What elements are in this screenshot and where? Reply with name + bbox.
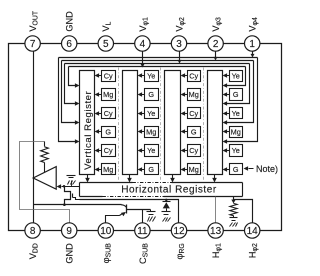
pin 11 circle (135, 223, 150, 238)
svg-text:Cy: Cy (189, 109, 198, 118)
wire ground net to pin 9 (thin) (20, 142, 70, 223)
photocell Cy col1 row5 with readout arrow (102, 145, 116, 157)
svg-text:Cy: Cy (104, 146, 113, 155)
wire phiRG pin 12 to reset gate (80, 200, 179, 223)
svg-text:G: G (105, 128, 111, 137)
arrow into resistor R2 (231, 200, 235, 204)
svg-text:Ye: Ye (232, 146, 240, 155)
op-amp U1 (output amplifier) (33, 167, 56, 190)
pin 8 circle (25, 223, 40, 238)
photocell Mg col1 row6 with readout arrow (102, 164, 116, 175)
wire stub Vφ2 pin 3 to bus (179, 52, 181, 63)
ground CSUB node (150, 210, 152, 212)
photocell Mg col3 row6 with readout arrow (188, 164, 201, 175)
svg-text:Ye: Ye (147, 71, 155, 80)
horizontal register box (79, 183, 243, 197)
wire Vφ4 bus line (pin 1) (59, 57, 258, 59)
svg-text:Cy: Cy (189, 71, 198, 80)
photocell Mg col3 row2 with readout arrow (188, 89, 201, 101)
svg-text:5: 5 (103, 39, 109, 50)
wire stub Vφ3 pin 2 to bus (215, 52, 217, 60)
wire VOUT pin 7 to amplifier output / VDD riser to pin 8 (33, 52, 35, 223)
pin 7 circle (25, 36, 40, 51)
svg-text:G: G (148, 165, 154, 174)
svg-text:3: 3 (176, 39, 182, 50)
vertical register column 4 (208, 71, 223, 175)
wire Hphi2 pin 14 to horizontal register (233, 197, 235, 200)
wire substrate node to CSUB (127, 209, 151, 211)
photocell Mg col1 row2 with readout arrow (102, 89, 116, 101)
photocell Cy col1 row3 with readout arrow (102, 108, 116, 119)
wire stub Vφ1 pin 4 to bus (142, 52, 144, 66)
wire horizontal register output to amplifier (62, 186, 80, 188)
svg-text:Cy: Cy (189, 146, 198, 155)
diode D1 (phiRG protection) (166, 200, 168, 202)
svg-text:Mg: Mg (189, 90, 199, 99)
photocell Ye col4 row5 with readout arrow (230, 145, 243, 157)
svg-text:Ye: Ye (147, 109, 155, 118)
node VDD junction (63, 203, 66, 206)
dash-dot continuation line 1 (118, 68, 120, 182)
photocell Ye col4 row1 with readout arrow (230, 71, 243, 82)
substrate contact bar (126, 205, 128, 214)
node amplifier input junction (63, 185, 66, 188)
svg-text:GND: GND (65, 243, 75, 264)
svg-text:Mg: Mg (103, 90, 113, 99)
photocell Cy col3 row5 with readout arrow (188, 145, 201, 157)
photocell Ye col2 row5 with readout arrow (145, 145, 159, 157)
photocell Cy col3 row1 with readout arrow (188, 71, 201, 82)
arrow vertical register 1 to horizontal register (87, 175, 89, 179)
node phiRG diode junction (165, 199, 168, 202)
pin 6 circle (61, 36, 76, 51)
photocell Ye col4 row3 with readout arrow (230, 108, 243, 119)
svg-text:12: 12 (173, 226, 185, 237)
vertical register column 2 (123, 71, 138, 175)
svg-text:Ye: Ye (147, 146, 155, 155)
dash-dot continuation line 2 (160, 68, 162, 182)
arrow vertical register 2 to horizontal register (129, 175, 131, 179)
photocell G col2 row6 with readout arrow (145, 164, 159, 175)
ground diode D1 (162, 211, 171, 213)
svg-text:G: G (148, 90, 154, 99)
dash-dot continuation line 3 (203, 68, 205, 182)
wire phiSUB pin 10 to substrate (arrow) (106, 216, 120, 223)
svg-text:9: 9 (66, 226, 72, 237)
wire Vφ1 bus line (pin 4) (69, 66, 246, 68)
svg-text:1: 1 (249, 39, 255, 50)
pin 2 circle (208, 36, 223, 51)
svg-text:G: G (233, 165, 239, 174)
svg-text:Mg: Mg (146, 128, 156, 137)
svg-text:13: 13 (210, 226, 222, 237)
photocell G col3 row4 with readout arrow (188, 127, 201, 138)
wire CSUB pin 11 riser (142, 210, 144, 223)
svg-text:7: 7 (30, 39, 36, 50)
photocell Ye col2 row3 with readout arrow (145, 108, 159, 119)
vertical register column 3 (165, 71, 181, 175)
photocell G col4 row2 with readout arrow (230, 89, 243, 101)
arrow vertical register 4 to horizontal register (214, 175, 216, 179)
svg-text:G: G (191, 128, 197, 137)
photocell Cy col1 row1 with readout arrow (102, 71, 116, 82)
wire Hphi1 pin 13 to horizontal register (thin) (215, 197, 217, 223)
svg-text:Cy: Cy (104, 71, 113, 80)
resistor R2 (Hphi2 termination) (230, 203, 237, 215)
svg-text:4: 4 (140, 39, 146, 50)
svg-text:8: 8 (30, 226, 36, 237)
note arrow and label (249, 168, 254, 170)
pin 13 circle (208, 223, 223, 238)
svg-text:11: 11 (137, 226, 148, 237)
svg-text:6: 6 (66, 39, 72, 50)
wire Vφ3 bus line (pin 2) (62, 60, 254, 62)
photocell G col2 row2 with readout arrow (145, 89, 159, 101)
pin 10 circle (98, 223, 113, 238)
pin 14 circle (245, 223, 260, 238)
svg-text:Note): Note) (256, 164, 278, 174)
chip package outline (9, 44, 282, 231)
arrow vertical register 3 to horizontal register (172, 175, 174, 179)
svg-text:10: 10 (100, 226, 112, 237)
pin 3 circle (171, 36, 186, 51)
svg-text:Mg: Mg (189, 165, 199, 174)
svg-text:Vertical Register: Vertical Register (83, 90, 94, 169)
pin 9 circle (61, 223, 76, 238)
svg-text:Cy: Cy (104, 109, 113, 118)
photocell Mg col4 row4 with readout arrow (230, 127, 243, 138)
svg-text:Mg: Mg (231, 128, 241, 137)
photocell Mg col2 row4 with readout arrow (145, 127, 159, 138)
photocell G col4 row6 with readout arrow (230, 164, 243, 175)
ground OG (above amp input) (71, 181, 73, 187)
ground resistor R2 (233, 216, 235, 218)
photocell Ye col2 row1 with readout arrow (145, 71, 159, 82)
svg-text:Ye: Ye (232, 71, 240, 80)
wire VDD rail (pin 8) to substrate contact (34, 204, 122, 206)
wire stub Vφ4 pin 1 to bus (252, 52, 254, 57)
svg-text:GND: GND (65, 11, 75, 32)
pin 5 circle (98, 36, 113, 51)
photocell Cy col3 row3 with readout arrow (188, 108, 201, 119)
resistor R1 (output load) (44, 142, 46, 147)
photocell G col1 row4 with readout arrow (102, 127, 116, 138)
svg-text:Mg: Mg (103, 165, 113, 174)
svg-text:Horizontal Register: Horizontal Register (121, 185, 217, 196)
vertical register column 1 (80, 71, 95, 175)
pin 4 circle (135, 36, 150, 51)
svg-text:14: 14 (247, 226, 259, 237)
wire Vφ2 bus line (pin 3) (65, 63, 250, 65)
transistor Q1 (reset gate) (65, 187, 71, 205)
svg-text:G: G (233, 90, 239, 99)
svg-text:Ye: Ye (232, 109, 240, 118)
pin 12 circle (171, 223, 186, 238)
pin 1 circle (245, 36, 260, 51)
svg-text:2: 2 (213, 39, 219, 50)
